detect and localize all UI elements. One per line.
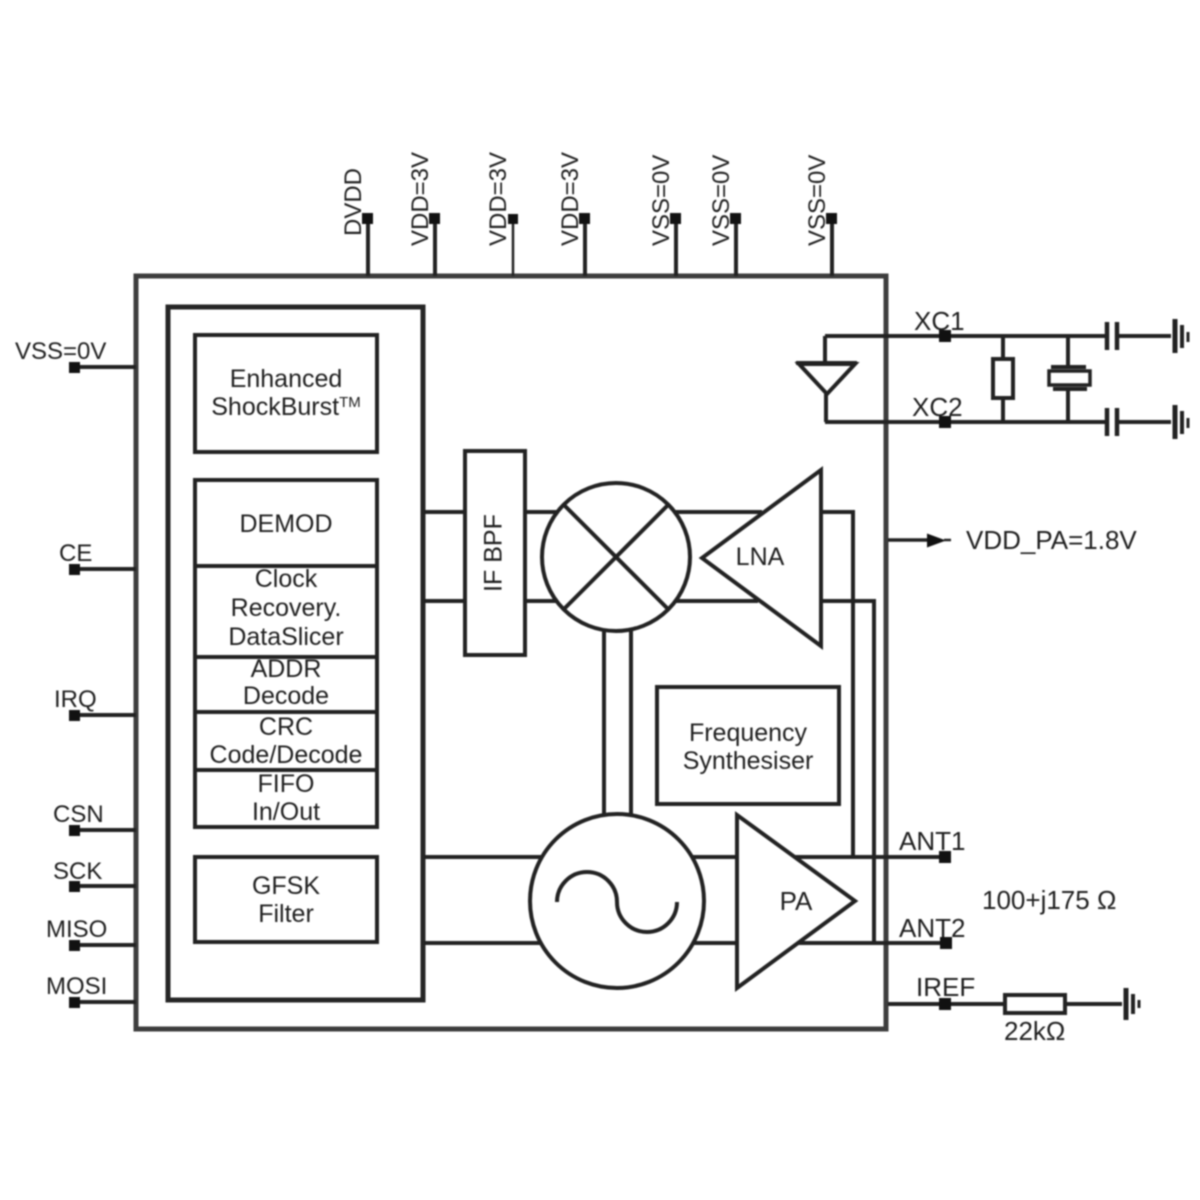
svg-text:Enhanced: Enhanced [230,365,343,393]
svg-text:In/Out: In/Out [252,798,320,826]
svg-text:VSS=0V: VSS=0V [15,338,106,365]
resistor R2 22k [1004,995,1122,1046]
pin VSS=0V top 2 [708,155,741,276]
pin XC2 [825,392,1105,428]
svg-text:VDD=3V: VDD=3V [485,152,512,246]
pin VSS=0V top 1 [648,155,681,276]
block Frequency Synthesiser [657,687,839,804]
block ADDR Decode [195,655,377,712]
pin MISO [46,916,136,951]
block DEMOD [195,480,377,566]
pin VDD_PA [888,525,1137,555]
block FIFO In/Out [195,770,377,827]
ground for C2 [1175,405,1188,439]
wire LNA input stub to ANT2 column [821,601,874,943]
svg-text:22kΩ: 22kΩ [1004,1016,1065,1046]
crystal X1 [1049,336,1090,422]
pin VSS=0V top 3 [804,155,837,276]
svg-text:VDD=3V: VDD=3V [407,152,434,246]
wire IF BPF to mixer top [525,510,557,514]
svg-text:MISO: MISO [46,916,107,943]
pin IREF [888,972,1005,1010]
block CRC Code/Decode [195,712,377,770]
svg-text:Decode: Decode [243,682,329,710]
pin CE [59,540,136,575]
svg-text:LNA: LNA [736,543,785,571]
svg-text:IF BPF: IF BPF [480,514,508,592]
svg-text:FIFO: FIFO [258,770,315,798]
svg-text:CRC: CRC [259,713,313,741]
svg-text:Recovery.: Recovery. [231,594,342,622]
pin VDD=3V 3 [557,152,590,276]
svg-text:PA: PA [780,886,813,916]
resistor R1 (crystal bias) [993,336,1013,422]
svg-text:100+j175 Ω: 100+j175 Ω [982,885,1116,915]
crystal inverter U2 [796,363,857,394]
block Enhanced ShockBurst [195,335,377,452]
pin ANT1 [899,826,965,863]
wire LNA input stub to ANT1 column [821,512,853,857]
svg-text:Clock: Clock [255,565,318,593]
pin VDD=3V 1 [407,152,440,276]
svg-text:XC1: XC1 [914,306,965,336]
svg-text:ANT2: ANT2 [899,913,965,943]
pin MOSI [46,973,136,1008]
wire oscillator to PA bottom [694,941,737,945]
svg-text:DVDD: DVDD [340,168,367,236]
wire ANT2 [797,941,946,945]
chip outer box U1 [136,276,886,1029]
pin VSS=0V left [15,338,136,373]
svg-text:MOSI: MOSI [46,973,107,1000]
wire baseband to oscillator top [423,855,542,859]
svg-text:CSN: CSN [53,801,104,828]
svg-text:VSS=0V: VSS=0V [708,155,735,246]
wire demod to IF BPF bottom [423,599,465,603]
svg-text:ADDR: ADDR [251,655,322,683]
baseband inner box [168,307,423,1000]
capacitor C1 [1107,322,1171,350]
svg-text:IREF: IREF [916,972,975,1002]
pin CSN [53,801,136,836]
svg-text:DEMOD: DEMOD [239,510,332,538]
svg-text:Code/Decode: Code/Decode [210,741,363,769]
pin XC1 [825,306,1105,342]
op-amp PA [737,815,855,988]
wire XC1 to inverter input [823,336,827,364]
svg-text:GFSK: GFSK [252,872,320,900]
pin SCK [53,858,136,892]
wire ANT1 [795,855,945,859]
capacitor C2 [1107,408,1171,436]
svg-text:VSS=0V: VSS=0V [648,155,675,246]
svg-text:ShockBurstTM: ShockBurstTM [211,393,361,421]
pin VDD=3V 2 [485,152,518,276]
wire oscillator to PA top [693,855,737,859]
ground for R2 [1126,988,1139,1020]
pin IRQ [54,686,136,721]
oscillator [530,814,704,988]
pin ANT2 [899,913,965,949]
mixer [542,483,690,631]
svg-text:Synthesiser: Synthesiser [683,747,814,775]
svg-text:CE: CE [59,540,92,567]
svg-text:Filter: Filter [258,900,314,928]
block Clock Recovery DataSlicer [195,565,377,657]
svg-text:SCK: SCK [53,858,102,885]
svg-text:ANT1: ANT1 [899,826,965,856]
svg-text:DataSlicer: DataSlicer [228,623,343,651]
svg-text:VSS=0V: VSS=0V [804,155,831,246]
svg-text:VDD_PA=1.8V: VDD_PA=1.8V [966,525,1137,555]
svg-text:Frequency: Frequency [689,719,808,747]
svg-text:IRQ: IRQ [54,686,97,713]
ground for C1 [1175,319,1188,353]
block GFSK Filter [195,857,377,942]
op-amp LNA [702,470,821,646]
wire inverter output to XC2 [824,394,828,422]
wire mixer to LNA bottom [676,599,758,603]
svg-text:XC2: XC2 [912,392,963,422]
pin DVDD top [340,168,373,276]
block IF BPF [465,451,525,655]
wire mixer to LNA top [676,510,762,514]
wire demod to IF BPF top [423,510,465,514]
svg-text:VDD=3V: VDD=3V [557,152,584,246]
wire mixer to oscillator left [602,629,606,816]
wire IF BPF to mixer bottom [525,599,557,603]
wire baseband to oscillator bottom [423,941,541,945]
wire mixer to oscillator right [629,628,633,816]
